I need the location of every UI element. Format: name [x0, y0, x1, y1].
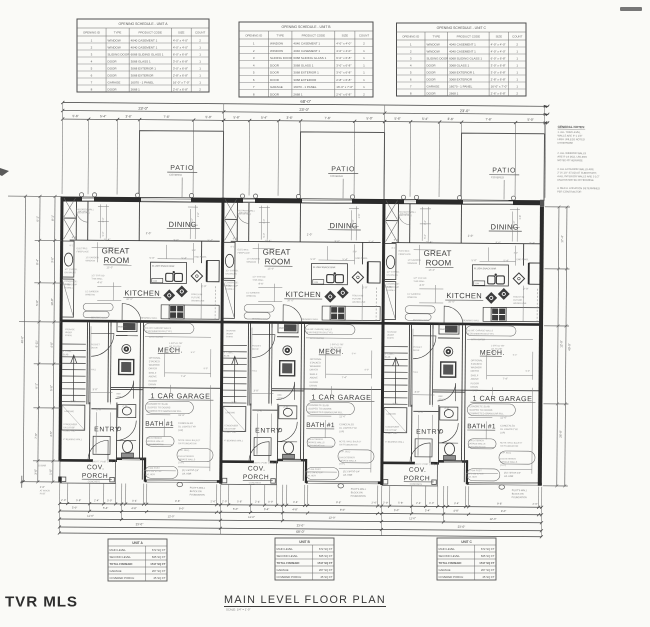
svg-text:TOTAL FINISHED: TOTAL FINISHED	[110, 562, 133, 566]
svg-text:1/2" GYP.BD.: 1/2" GYP.BD.	[64, 269, 77, 271]
svg-text:W 5/8 SHEETROCK (TYP.): W 5/8 SHEETROCK (TYP.)	[306, 332, 333, 334]
unit C stairs	[384, 347, 408, 405]
svg-text:LVL HDR: LVL HDR	[468, 477, 477, 479]
svg-text:PILOT'S WALL: PILOT'S WALL	[512, 489, 528, 492]
svg-text:26'-8": 26'-8"	[559, 430, 563, 438]
svg-text:CONDENSER: CONDENSER	[63, 424, 77, 426]
svg-text:1: 1	[516, 77, 518, 81]
svg-text:WALLS ARE 9'-1 1/8": WALLS ARE 9'-1 1/8"	[558, 134, 583, 138]
unit C bath bay front wall	[438, 460, 468, 463]
svg-text:2x6 INT. GARAGE WALLS: 2x6 INT. GARAGE WALLS	[306, 328, 332, 331]
svg-text:CONCRETE: CONCRETE	[249, 482, 262, 484]
right dimension lines	[543, 207, 570, 486]
svg-text:3: 3	[253, 56, 255, 60]
unit A bath bay front wall	[116, 457, 146, 460]
svg-text:COV.: COV.	[248, 465, 266, 472]
svg-text:3. ALL EXTERIOR WALLS ARE: 3. ALL EXTERIOR WALLS ARE	[557, 167, 594, 171]
svg-text:1 CAR GARAGE: 1 CAR GARAGE	[311, 392, 371, 401]
svg-text:GARAGE WALLS: GARAGE WALLS	[339, 459, 357, 462]
unit C electric fireplace	[384, 244, 396, 280]
svg-text:16070 - 1 PANEL: 16070 - 1 PANEL	[293, 85, 316, 89]
svg-text:1: 1	[363, 49, 365, 53]
svg-text:REF.: REF.	[116, 393, 121, 395]
svg-text:COMPACTED GRANULAR FILL: COMPACTED GRANULAR FILL	[469, 412, 504, 415]
svg-text:REF.: REF.	[438, 396, 443, 398]
svg-text:BLOCK ON: BLOCK ON	[190, 491, 202, 493]
svg-text:W/ 1-3/4"X7-1/4": W/ 1-3/4"X7-1/4"	[468, 473, 485, 475]
svg-text:POCKET: POCKET	[91, 344, 101, 346]
unit C fridge dashed line	[536, 289, 538, 322]
svg-text:1-3/4"x11-7/8": 1-3/4"x11-7/8"	[330, 344, 344, 346]
svg-text:3'-0" x 6'-8": 3'-0" x 6'-8"	[336, 71, 351, 75]
svg-text:GARAGE WALLS: GARAGE WALLS	[178, 458, 196, 461]
subdivided dimension tier	[61, 114, 549, 124]
svg-text:4" BEARING WALL: 4" BEARING WALL	[63, 438, 83, 441]
dimension extension lines above building	[62, 102, 546, 207]
svg-text:4" BEARING WALL: 4" BEARING WALL	[385, 441, 405, 444]
patio unit B center extension	[342, 179, 344, 198]
svg-text:FLUSH SNACK BAR: FLUSH SNACK BAR	[474, 267, 497, 270]
svg-text:5'-8": 5'-8"	[76, 498, 81, 502]
svg-text:11'-6": 11'-6"	[500, 415, 507, 419]
unit B mid bearing wall	[222, 321, 383, 325]
svg-text:4'-8": 4'-8"	[131, 506, 136, 510]
svg-text:W/ 1-3/4"X7-1/4": W/ 1-3/4"X7-1/4"	[146, 471, 163, 473]
unit C range	[491, 307, 506, 321]
unit B house front wall at porch	[221, 460, 254, 463]
unit A dark diamonds	[163, 289, 175, 301]
svg-text:SLIDING DOOR: SLIDING DOOR	[108, 52, 131, 56]
svg-text:FUTURE: FUTURE	[513, 300, 522, 302]
svg-text:HALL: HALL	[413, 371, 419, 374]
svg-text:2'-4": 2'-4"	[255, 500, 260, 504]
svg-text:5'-4": 5'-4"	[100, 114, 106, 118]
svg-text:NOTE: WALL BALR 3": NOTE: WALL BALR 3"	[178, 439, 200, 442]
unit C door arcs	[410, 306, 463, 463]
svg-text:5'-6": 5'-6"	[72, 114, 78, 118]
svg-text:672 SQ FT: 672 SQ FT	[152, 548, 166, 552]
svg-text:23'-0": 23'-0"	[138, 107, 148, 111]
svg-text:845 SQ FT: 845 SQ FT	[319, 554, 333, 558]
svg-text:SLAB: SLAB	[385, 356, 391, 359]
svg-text:3068 GLASS 1: 3068 GLASS 1	[449, 63, 469, 67]
svg-text:GREAT: GREAT	[424, 249, 452, 258]
svg-text:7'-4": 7'-4"	[181, 374, 186, 378]
unit B GREAT ROOM label	[262, 248, 292, 271]
svg-text:2: 2	[91, 45, 93, 49]
patio unit B label	[328, 166, 358, 178]
svg-text:ELECTRIC: ELECTRIC	[77, 248, 88, 250]
svg-text:3'-0": 3'-0"	[263, 219, 266, 224]
svg-text:ROOM: ROOM	[426, 258, 452, 267]
svg-text:3068 EXTERIOR: 3068 EXTERIOR	[293, 78, 317, 82]
svg-text:SIZE: SIZE	[496, 35, 502, 39]
svg-text:CONC. PAD: CONC. PAD	[385, 432, 397, 435]
unit C pantry	[439, 323, 459, 334]
svg-text:3'-0": 3'-0"	[253, 389, 258, 393]
svg-text:BATH #1: BATH #1	[306, 422, 335, 429]
svg-text:4'-8": 4'-8"	[292, 507, 297, 511]
svg-text:ENTRY: ENTRY	[94, 426, 120, 433]
unit B stairs	[223, 345, 247, 403]
svg-text:COVERAGE:: COVERAGE:	[386, 283, 399, 286]
svg-text:5'-6": 5'-6"	[233, 115, 239, 119]
svg-text:1: 1	[199, 80, 201, 84]
svg-text:DOOR: DOOR	[270, 78, 280, 82]
svg-text:GARAGE: GARAGE	[110, 569, 122, 573]
svg-text:1/2" GYP. BD: 1/2" GYP. BD	[91, 275, 104, 277]
svg-text:6068 SLIDING GLASS 1: 6068 SLIDING GLASS 1	[131, 52, 164, 56]
svg-text:WINDOW: WINDOW	[408, 263, 419, 265]
unit A landing closet	[62, 405, 85, 430]
svg-text:2: 2	[199, 87, 201, 91]
svg-text:2'-0": 2'-0"	[523, 287, 528, 291]
svg-text:9'-0": 9'-0"	[365, 369, 370, 371]
svg-text:SIZE: SIZE	[178, 31, 184, 35]
svg-text:BATH #1: BATH #1	[145, 421, 174, 428]
svg-text:TYPE: TYPE	[433, 35, 441, 39]
unit C light symbol outlined	[513, 273, 524, 284]
svg-text:THIS WALL: THIS WALL	[252, 279, 264, 282]
unit B bath bay side wall	[305, 459, 307, 483]
svg-text:END PANEL: END PANEL	[195, 256, 208, 259]
svg-text:1/2" GYP. BD: 1/2" GYP. BD	[413, 278, 426, 280]
svg-text:1: 1	[516, 49, 518, 53]
unit A interior walls	[62, 201, 223, 480]
svg-text:845 SQ FT: 845 SQ FT	[481, 554, 495, 558]
svg-text:3'-6": 3'-6"	[125, 115, 131, 119]
svg-text:LVL HDR: LVL HDR	[343, 475, 353, 477]
svg-text:ROOM: ROOM	[104, 256, 130, 265]
svg-text:672 SQ FT: 672 SQ FT	[481, 547, 495, 551]
unit C GREAT ROOM label	[423, 249, 453, 272]
unit C rear windows / slider	[463, 200, 513, 204]
unit B rear closets	[225, 199, 237, 240]
svg-text:DOOR: DOOR	[270, 63, 280, 67]
svg-text:DOOR: DOOR	[426, 63, 436, 67]
svg-text:5'-0": 5'-0"	[394, 508, 399, 512]
unit B pantry	[278, 322, 298, 333]
svg-text:45 SQ FT: 45 SQ FT	[153, 576, 165, 580]
svg-text:11'-0": 11'-0"	[87, 514, 94, 518]
svg-text:COUNT: COUNT	[512, 35, 523, 39]
svg-text:COVERED: COVERED	[169, 173, 182, 177]
scan artifact top right	[620, 7, 642, 11]
svg-text:4'-6": 4'-6"	[258, 282, 263, 286]
svg-text:6'-1": 6'-1"	[394, 238, 399, 242]
unit B interior walls	[223, 202, 384, 481]
svg-text:10 BAR: 10 BAR	[38, 464, 47, 467]
svg-text:2: 2	[363, 42, 365, 46]
svg-text:2x6 INT. GARAGE WALLS: 2x6 INT. GARAGE WALLS	[145, 327, 171, 330]
svg-text:10'-4": 10'-4"	[426, 240, 433, 244]
svg-text:4'-0" x 4'-0": 4'-0" x 4'-0"	[491, 42, 506, 46]
svg-text:8: 8	[410, 91, 412, 95]
svg-text:1: 1	[199, 73, 201, 77]
svg-text:COV.: COV.	[87, 464, 105, 471]
svg-text:PRODUCT CODE: PRODUCT CODE	[457, 35, 480, 39]
svg-text:FLUSH SNACK BAR: FLUSH SNACK BAR	[313, 266, 336, 269]
svg-text:THIS WALL: THIS WALL	[413, 280, 425, 283]
svg-text:CONDENSER: CONDENSER	[224, 425, 238, 427]
svg-text:SLIDING DOOR: SLIDING DOOR	[270, 56, 293, 60]
svg-text:PORCH: PORCH	[404, 475, 430, 482]
svg-text:POST: POST	[40, 493, 47, 495]
svg-text:SIZE: SIZE	[342, 34, 348, 38]
unit A left party wall	[58, 197, 63, 462]
unit C interior walls	[384, 204, 544, 483]
svg-text:7'-6": 7'-6"	[163, 115, 169, 119]
unit B fridge dashed line	[375, 287, 377, 320]
svg-text:AT WOOD: AT WOOD	[40, 489, 51, 492]
svg-text:5'-0": 5'-0"	[366, 116, 372, 120]
svg-text:PILOT'S WALL: PILOT'S WALL	[190, 487, 206, 490]
svg-text:GREAT: GREAT	[263, 248, 291, 257]
svg-text:2X4 EXTERIOR: 2X4 EXTERIOR	[468, 440, 484, 442]
svg-text:SECOND LEVEL: SECOND LEVEL	[277, 554, 299, 558]
patio unit A center extension	[181, 177, 183, 196]
svg-text:3'-0": 3'-0"	[268, 500, 273, 504]
svg-text:(TYP. SILL): (TYP. SILL)	[339, 451, 350, 453]
svg-text:CONC. PAD: CONC. PAD	[224, 431, 236, 434]
svg-text:2X4 EXTERIOR: 2X4 EXTERIOR	[146, 438, 162, 440]
svg-text:1: 1	[91, 38, 93, 42]
svg-text:(2) 1-3/4"X7-1/4": (2) 1-3/4"X7-1/4"	[343, 471, 360, 473]
svg-text:3'-0": 3'-0"	[424, 220, 427, 225]
unit B rear (top) wall	[223, 198, 384, 204]
svg-text:9'-0": 9'-0"	[340, 508, 345, 512]
unit A BATH #1 label	[145, 421, 196, 432]
unit B rear counter	[322, 306, 380, 320]
svg-text:5'-4": 5'-4"	[264, 507, 269, 511]
svg-text:1. ALL TRIM LEVEL: 1. ALL TRIM LEVEL	[558, 130, 582, 134]
svg-text:OTHERWISE: OTHERWISE	[557, 141, 573, 145]
svg-text:267 SQ FT: 267 SQ FT	[319, 568, 333, 572]
svg-text:WATER LINE: WATER LINE	[352, 301, 366, 304]
svg-text:END PANEL: END PANEL	[517, 258, 530, 261]
svg-text:6X6 P.T. POST (TYP.): 6X6 P.T. POST (TYP.)	[253, 463, 274, 465]
bottom dimension tiers	[59, 504, 541, 537]
svg-text:SHELVES: SHELVES	[400, 214, 410, 216]
svg-text:3'-0" x 6'-8": 3'-0" x 6'-8"	[336, 63, 351, 67]
unit A range	[169, 305, 184, 319]
unit A entry closet	[93, 436, 110, 454]
svg-text:7: 7	[410, 84, 412, 88]
svg-text:6'-0": 6'-0"	[352, 219, 355, 224]
svg-text:6X6 P.T. POST (TYP.): 6X6 P.T. POST (TYP.)	[92, 461, 113, 463]
unit B interior dim marks	[251, 244, 373, 473]
svg-text:3'-0": 3'-0"	[34, 469, 38, 475]
svg-text:5'-8": 5'-8"	[237, 499, 242, 503]
svg-text:6'-0" x 6'-8": 6'-0" x 6'-8"	[173, 52, 188, 56]
svg-text:1: 1	[363, 71, 365, 75]
unit C toilet	[445, 443, 455, 455]
unit B kitchen counter / snack bar	[311, 263, 347, 284]
svg-text:SPACE: SPACE	[438, 398, 446, 401]
svg-text:1-3/4"x11-7/8": 1-3/4"x11-7/8"	[491, 345, 505, 347]
unit A electric fireplace	[62, 241, 74, 277]
svg-text:2'-0": 2'-0"	[362, 285, 367, 289]
svg-text:6: 6	[253, 78, 255, 82]
svg-text:FUTURE: FUTURE	[191, 297, 200, 299]
svg-text:WATER LINE: WATER LINE	[191, 299, 205, 302]
svg-text:SECOND LEVEL: SECOND LEVEL	[110, 555, 132, 559]
svg-text:9'-0": 9'-0"	[204, 368, 209, 370]
svg-text:GARAGE WALLS: GARAGE WALLS	[500, 461, 518, 464]
svg-text:WTR HEATER: WTR HEATER	[471, 338, 486, 341]
svg-text:(TYP. SILL): (TYP. SILL)	[178, 450, 189, 452]
svg-text:5'-0": 5'-0"	[150, 256, 155, 260]
per-unit 23-0 dimension lines	[61, 106, 549, 116]
svg-text:2: 2	[199, 38, 201, 42]
svg-text:3068 GLASS 1: 3068 GLASS 1	[293, 63, 313, 67]
svg-text:FUTURE: FUTURE	[352, 298, 361, 300]
svg-text:BEARING WALL: BEARING WALL	[141, 317, 158, 320]
unit A garden window closet	[62, 279, 74, 317]
svg-text:1'-6": 1'-6"	[197, 212, 200, 217]
svg-text:OPENING ID: OPENING ID	[83, 31, 100, 35]
svg-text:(TYP.): (TYP.)	[178, 462, 184, 464]
svg-text:ROUGH IN: ROUGH IN	[352, 295, 363, 297]
svg-text:HIGH UNLESS NOTED: HIGH UNLESS NOTED	[557, 137, 585, 141]
svg-text:COVERED: COVERED	[330, 174, 343, 178]
svg-text:STORAGE: STORAGE	[65, 328, 75, 331]
unit B washer/dryer circle	[283, 346, 292, 355]
unit B refrigerator	[368, 262, 380, 283]
unit A bath bay side wall	[144, 458, 146, 482]
svg-text:11'-6": 11'-6"	[178, 413, 185, 417]
svg-text:2'-0": 2'-0"	[146, 231, 152, 235]
svg-text:2668 1: 2668 1	[293, 92, 303, 96]
svg-text:UNDER: UNDER	[226, 333, 234, 335]
svg-text:1-3/4"x11-7/8": 1-3/4"x11-7/8"	[169, 343, 183, 345]
svg-text:7: 7	[253, 85, 255, 89]
patio unit C center extension	[503, 180, 505, 199]
svg-text:CONDENSER: CONDENSER	[385, 427, 399, 429]
svg-text:5'-4": 5'-4"	[422, 117, 428, 121]
svg-text:GARAGE WALLS: GARAGE WALLS	[468, 442, 486, 445]
svg-text:LVL HDR: LVL HDR	[504, 476, 514, 478]
svg-text:5'-0": 5'-0"	[205, 115, 211, 119]
svg-text:4'-8": 4'-8"	[453, 509, 458, 513]
svg-text:ON 18"X38": ON 18"X38"	[385, 430, 397, 432]
svg-text:TYPE: TYPE	[276, 34, 284, 38]
unit B bath sink vanity	[279, 406, 297, 419]
svg-text:DRYER: DRYER	[471, 370, 480, 373]
unit C rear closets	[386, 201, 398, 242]
svg-text:1'-6": 1'-6"	[519, 215, 522, 220]
unit B dark diamonds	[324, 291, 336, 303]
svg-text:R-19(KD) VP: R-19(KD) VP	[225, 286, 238, 288]
unit A annotations	[62, 245, 209, 477]
svg-text:2'-6": 2'-6"	[96, 407, 101, 411]
svg-text:5'-4": 5'-4"	[352, 353, 357, 355]
svg-text:SPACE: SPACE	[277, 397, 285, 400]
svg-text:WTR HEATER: WTR HEATER	[310, 337, 325, 340]
svg-text:UNIT C: UNIT C	[461, 540, 472, 544]
unit B left party wall	[219, 198, 224, 484]
svg-text:LVL HDR: LVL HDR	[182, 473, 192, 475]
svg-text:5'-4": 5'-4"	[504, 258, 509, 262]
unit C COV PORCH label	[404, 467, 434, 486]
svg-text:6068 SLIDING GLASS 1: 6068 SLIDING GLASS 1	[293, 56, 326, 60]
svg-text:1: 1	[516, 70, 518, 74]
bottom dimension ticks	[58, 502, 543, 538]
unit C callout capsules	[404, 306, 536, 482]
svg-text:SLAB: SLAB	[63, 353, 69, 356]
svg-text:2: 2	[253, 49, 255, 53]
patio unit A outline	[139, 131, 224, 199]
svg-text:8'-1": 8'-1"	[70, 245, 75, 247]
svg-text:4: 4	[91, 59, 93, 63]
svg-text:5'-8": 5'-8"	[151, 386, 156, 390]
svg-text:BLOCK ON: BLOCK ON	[351, 492, 363, 494]
unit B entry closet	[254, 438, 271, 456]
svg-text:12'-0": 12'-0"	[329, 516, 336, 520]
unit C KITCHEN label	[445, 291, 483, 304]
svg-text:1517 SQ FT: 1517 SQ FT	[479, 561, 495, 565]
svg-text:2X4 EXTERIOR: 2X4 EXTERIOR	[307, 439, 323, 441]
svg-text:WATER LINE: WATER LINE	[513, 302, 527, 305]
svg-text:CONCRETE: CONCRETE	[410, 484, 423, 486]
svg-text:LVL HDR: LVL HDR	[146, 474, 155, 476]
svg-text:GARAGE: GARAGE	[439, 568, 451, 572]
svg-text:(UP): (UP)	[339, 430, 344, 433]
svg-text:3068 EXTERIOR: 3068 EXTERIOR	[131, 73, 155, 77]
svg-text:2'-8" x 6'-8": 2'-8" x 6'-8"	[173, 73, 188, 77]
svg-text:5'-0": 5'-0"	[311, 257, 316, 261]
svg-text:STAIRS: STAIRS	[226, 335, 234, 338]
svg-text:5'-4": 5'-4"	[208, 238, 213, 242]
svg-text:LVL FLUSH: LVL FLUSH	[491, 349, 503, 351]
svg-text:6068 SLIDING GLASS 1: 6068 SLIDING GLASS 1	[449, 56, 482, 60]
svg-text:5'-0": 5'-0"	[424, 234, 427, 239]
svg-text:7'-4": 7'-4"	[342, 375, 347, 379]
svg-text:WINDOW: WINDOW	[86, 260, 97, 262]
svg-text:5'-11": 5'-11"	[35, 340, 39, 347]
svg-text:3'-4": 3'-4"	[454, 501, 459, 505]
unit A KITCHEN label	[123, 288, 161, 301]
svg-text:SHELVES: SHELVES	[239, 212, 249, 214]
svg-text:2'-8": 2'-8"	[40, 485, 45, 489]
svg-text:1: 1	[363, 85, 365, 89]
svg-text:5'-8": 5'-8"	[398, 501, 403, 505]
unit C interior dim marks	[412, 245, 534, 474]
svg-text:23'-0": 23'-0"	[136, 522, 144, 526]
unit C annotations	[384, 248, 531, 480]
svg-text:2'-8": 2'-8"	[283, 405, 288, 409]
svg-text:5'-4": 5'-4"	[369, 239, 374, 243]
svg-text:ON 18"X38": ON 18"X38"	[224, 428, 236, 430]
unit B annotations	[223, 246, 370, 478]
svg-text:ON WALLS: ON WALLS	[225, 273, 237, 276]
unit B BATH #1 label	[306, 422, 357, 433]
svg-text:23'-0": 23'-0"	[299, 108, 309, 112]
svg-text:(2) 1-3/4"X7-1/4": (2) 1-3/4"X7-1/4"	[182, 470, 199, 472]
unit A garage door tag	[177, 482, 183, 486]
svg-text:WINDOW: WINDOW	[407, 297, 418, 299]
svg-text:(UP): (UP)	[500, 431, 505, 434]
svg-text:3'-0" x 6'-8": 3'-0" x 6'-8"	[491, 70, 506, 74]
svg-text:1/2 GARDEN: 1/2 GARDEN	[247, 257, 260, 260]
svg-text:W 5/8 SHEETROCK (TYP.): W 5/8 SHEETROCK (TYP.)	[145, 331, 172, 333]
svg-text:3: 3	[410, 56, 412, 60]
svg-text:DOOR: DOOR	[91, 347, 98, 349]
top overall dimension line 68-0	[61, 97, 549, 108]
svg-text:9'-0": 9'-0"	[496, 240, 501, 244]
svg-text:5'-0": 5'-0"	[49, 385, 53, 391]
svg-text:MAIN LEVEL: MAIN LEVEL	[277, 547, 294, 551]
